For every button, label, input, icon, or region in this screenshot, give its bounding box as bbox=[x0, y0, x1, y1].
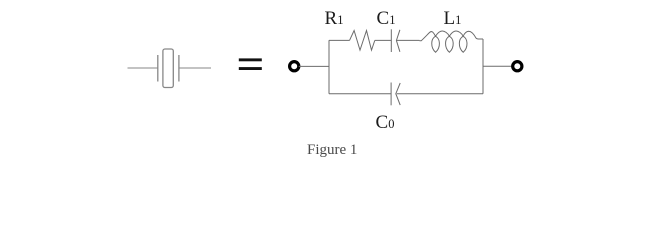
resistor R1 bbox=[350, 31, 375, 51]
wire: right vertical branch junction bbox=[482, 39, 484, 94]
svg-text:C1: C1 bbox=[377, 8, 396, 29]
wire: bottom branch right segment bbox=[397, 93, 483, 95]
crystal Y1 right plate bbox=[178, 55, 180, 82]
wire: left terminal to left node bbox=[299, 65, 329, 67]
svg-text:R1: R1 bbox=[325, 8, 344, 29]
capacitor C0 left plate bbox=[390, 83, 392, 106]
capacitor C1 left plate bbox=[390, 29, 392, 52]
equals sign bbox=[239, 58, 262, 70]
wire: right node to right terminal bbox=[483, 65, 512, 67]
wire: top branch left segment bbox=[329, 39, 350, 41]
wire: left vertical branch junction bbox=[328, 40, 330, 93]
crystal Y1 right lead wire bbox=[179, 67, 211, 69]
right terminal circle bbox=[513, 62, 522, 71]
crystal Y1 body rectangle bbox=[163, 49, 173, 88]
wire: C1 to inductor bbox=[397, 39, 420, 41]
capacitor C0 right curved plate bbox=[396, 83, 400, 105]
crystal Y1 left plate bbox=[157, 55, 159, 82]
svg-text:C0: C0 bbox=[376, 112, 395, 133]
svg-text:Figure 1: Figure 1 bbox=[307, 142, 357, 158]
inductor L1 bbox=[420, 31, 484, 52]
left terminal circle bbox=[290, 62, 299, 71]
svg-text:L1: L1 bbox=[444, 8, 462, 29]
capacitor C1 right curved plate bbox=[396, 30, 400, 52]
wire: bottom branch left segment bbox=[329, 93, 391, 95]
wire: resistor to C1 bbox=[375, 39, 392, 41]
crystal Y1 left lead wire bbox=[128, 67, 158, 69]
